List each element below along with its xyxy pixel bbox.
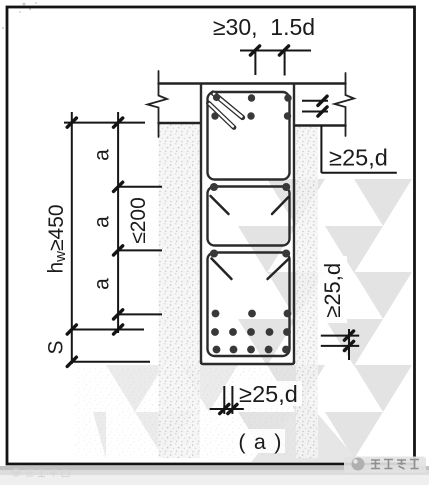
S top horizontal (72, 329, 144, 331)
bottom dim vertical 1 (223, 386, 225, 414)
svg-text:hw≥450: hw≥450 (45, 204, 69, 273)
beam outline right (293, 85, 295, 364)
svg-text:S: S (45, 340, 68, 354)
bent bar lower in compartment 1 (209, 103, 235, 128)
scan speckles top-left corner (2, 2, 37, 29)
left chain stub 2 (117, 112, 119, 123)
beam outline bottom (201, 361, 294, 364)
hook left compartment 2 (211, 196, 229, 214)
right lower dim line 1 (321, 335, 359, 337)
top dimension line (240, 50, 311, 52)
site watermark bottom-right (344, 457, 426, 473)
a dim line 3 (118, 313, 162, 315)
concrete stipple below beam (200, 366, 296, 458)
watermark triangle pattern (238, 179, 412, 459)
rebar dots compartment 2 corners (210, 183, 290, 191)
slab bottom line right (294, 124, 346, 126)
leader horizontal top-right (321, 172, 396, 174)
bent bar upper in compartment 1 (209, 93, 243, 128)
right lower dim line 2 (321, 345, 359, 347)
svg-text:≥25,d: ≥25,d (320, 263, 345, 318)
svg-text:( a ): ( a ) (238, 430, 282, 454)
concrete stipple left strip (159, 124, 201, 458)
svg-text:≥25,d: ≥25,d (329, 145, 388, 171)
white bg under top-right text (322, 140, 402, 171)
rebar dots bottom group (211, 310, 291, 354)
S bottom horizontal (72, 361, 150, 363)
bottom dim vertical 2 (231, 386, 233, 414)
white bg under (a) label (236, 429, 285, 453)
break symbol right (335, 73, 355, 136)
left chain top horizontal (64, 122, 145, 124)
white bg under rotated right text (318, 256, 347, 323)
top dim extension line left (254, 51, 256, 75)
hook left compartment 3 (212, 259, 232, 280)
rebar dots compartment 3 corners (210, 250, 290, 258)
top bar line 1 right of beam (302, 100, 328, 102)
left chain stub 1 (71, 112, 73, 123)
svg-text:≥30, 1.5d: ≥30, 1.5d (213, 14, 315, 40)
watermark faint left triangles (93, 365, 238, 459)
top bar line 2 right of beam (302, 111, 328, 113)
concrete stipple right strip (296, 127, 318, 458)
slab top line (159, 82, 346, 84)
concrete stipple bottom left (75, 368, 159, 458)
svg-text:a: a (91, 216, 114, 228)
svg-text:≤200: ≤200 (127, 197, 150, 244)
left chain vertical 1 (71, 123, 73, 364)
hook right compartment 3 (268, 259, 290, 280)
a dim line 2 (118, 249, 162, 251)
bottom dim horizontal (210, 408, 244, 410)
break symbol left (148, 71, 168, 137)
top dim extension line right (284, 51, 286, 76)
hook right compartment 2 (272, 197, 289, 214)
watermark big bottom triangle (251, 399, 359, 462)
bottom scan band (0, 466, 429, 470)
white bg under bottom text (236, 381, 302, 406)
stirrup 2 (208, 187, 290, 246)
faint watermark bottom-left (12, 469, 69, 477)
beam outline left (200, 85, 202, 364)
a dim line 1 (118, 186, 162, 188)
svg-text:≥25,d: ≥25,d (239, 381, 298, 407)
left chain vertical 2 (117, 123, 119, 333)
stirrup 1 (208, 92, 290, 180)
right lower dim vertical (348, 329, 350, 360)
rebar dots compartment 1 (211, 94, 291, 120)
dimension ticks (67, 46, 353, 414)
svg-text:a: a (91, 278, 114, 290)
stirrup 3 (208, 253, 290, 357)
leader vertical top-right (320, 126, 322, 173)
slab bottom line left (159, 122, 202, 124)
svg-text:a: a (91, 149, 114, 161)
